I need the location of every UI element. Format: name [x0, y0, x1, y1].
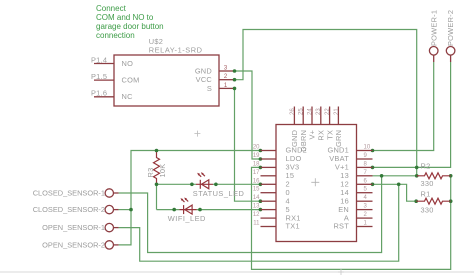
wire relay VCC to power rail via top — [235, 30, 417, 176]
junction IC pin 19 — [259, 157, 263, 161]
grid cross mark — [194, 131, 200, 137]
svg-text:POWER-1: POWER-1 — [429, 10, 438, 46]
svg-text:GND: GND — [290, 130, 299, 147]
svg-text:12: 12 — [253, 212, 260, 218]
svg-text:NC: NC — [122, 92, 134, 101]
svg-text:25: 25 — [299, 108, 305, 115]
svg-text:GND: GND — [195, 66, 212, 75]
IC right pin names — [327, 146, 349, 231]
wire WIFI row left segment — [157, 209, 180, 211]
svg-text:11: 11 — [253, 221, 260, 227]
junction at relay pin 1 — [233, 87, 237, 91]
wire IC pin 7 row — [373, 175, 417, 177]
sheet boundary line — [0, 271, 474, 273]
IC left pin numbers — [253, 145, 260, 227]
svg-text:COM and NO to: COM and NO to — [96, 13, 154, 22]
svg-text:20: 20 — [253, 145, 260, 151]
svg-text:Connect: Connect — [96, 4, 127, 13]
relay U$2 pin 2 stub — [219, 79, 235, 81]
junction IC pin 10 — [371, 149, 375, 153]
IC top pin stubs — [294, 107, 338, 125]
IC right pin stubs — [357, 151, 373, 227]
junction STATUS_LED left — [190, 183, 194, 187]
wire IC pin 6 row to R1 left — [373, 184, 417, 201]
svg-text:14: 14 — [253, 195, 260, 201]
wire CLOSED_SENSOR-1 to IC pin 7 via bottom — [119, 176, 382, 253]
IC origin cross — [311, 178, 319, 186]
wire R3 bottom down to WIFI row — [156, 184, 158, 209]
wire 3V3 down to bottom rail and up right side — [252, 167, 451, 269]
wire GND1 to POWER-1 — [373, 62, 434, 151]
svg-text:330: 330 — [421, 179, 434, 188]
svg-text:10: 10 — [364, 145, 371, 151]
svg-text:TX1: TX1 — [286, 222, 300, 231]
junction at relay pin 2 — [233, 78, 237, 82]
junction R2 left — [415, 174, 419, 178]
svg-text:connection: connection — [96, 31, 135, 40]
wire V+1 to POWER-2 — [373, 62, 451, 167]
relay U$2 pin NC stub — [94, 96, 114, 98]
pad CLOSED_SENSOR-1 — [105, 189, 113, 197]
svg-text:P1.4: P1.4 — [91, 55, 107, 64]
svg-text:RELAY-1-SRD: RELAY-1-SRD — [149, 45, 203, 54]
svg-text:18: 18 — [253, 161, 260, 167]
svg-text:garage door button: garage door button — [96, 22, 164, 31]
junction IC pin 8 — [371, 166, 375, 170]
svg-text:V+: V+ — [308, 130, 317, 140]
LED STATUS_LED — [196, 172, 213, 189]
svg-text:23: 23 — [316, 108, 322, 115]
IC U1 body — [276, 125, 357, 242]
svg-text:GRN: GRN — [334, 130, 343, 147]
junction WIFI_LED left — [172, 208, 176, 212]
wire relay S to IC pin 14 — [235, 88, 261, 201]
relay U$2 body — [114, 55, 219, 106]
relay U$2 pin 3 stub — [219, 70, 235, 72]
junction IC pin 18 — [259, 166, 263, 170]
svg-text:P1.5: P1.5 — [91, 72, 107, 81]
wire relay GND to IC LDO — [235, 71, 261, 159]
svg-text:OPEN_SENSOR-1: OPEN_SENSOR-1 — [42, 223, 105, 232]
IC left pin stubs — [261, 151, 277, 227]
junction pin6 branch — [397, 183, 401, 187]
junction STATUS_LED right — [214, 183, 218, 187]
wire GND2 row to sensor common — [119, 151, 261, 245]
svg-text:VCC: VCC — [196, 75, 213, 84]
IC top pin names — [290, 130, 343, 152]
junction R3 bottom — [155, 183, 159, 187]
wire STATUS row left segment — [157, 183, 197, 185]
pad POWER-2 — [446, 47, 455, 56]
resistor R1 — [416, 198, 451, 204]
svg-text:NO: NO — [122, 59, 134, 68]
wire WIFI row right segment — [197, 209, 261, 211]
relay U$2 pin NO stub — [94, 63, 114, 65]
svg-text:COM: COM — [122, 76, 140, 85]
svg-text:R2: R2 — [421, 162, 431, 171]
junction R2 right — [449, 174, 453, 178]
junction R3 top — [155, 149, 159, 153]
svg-text:330: 330 — [421, 206, 434, 215]
svg-text:RST: RST — [333, 222, 349, 231]
LED WIFI_LED — [180, 198, 197, 215]
junction IC pin 20 — [259, 149, 263, 153]
junction pin7 branch — [380, 174, 384, 178]
svg-text:R3: R3 — [146, 168, 155, 178]
IC top pin numbers — [290, 108, 340, 115]
junction J1 power cross — [415, 166, 419, 170]
junction IC pin 14 — [259, 199, 263, 203]
junction R1 left — [414, 199, 418, 203]
svg-text:16: 16 — [253, 178, 260, 184]
svg-text:R1: R1 — [421, 190, 431, 199]
IC right pin numbers — [364, 145, 371, 227]
svg-text:21: 21 — [334, 108, 340, 115]
junction WIFI_LED right — [198, 208, 202, 212]
wire OPEN_SENSOR-1 to IC pin 6 via bottom — [119, 184, 399, 261]
junction R1 right — [449, 199, 453, 203]
svg-text:10K: 10K — [158, 164, 167, 178]
wire pad CLOSED_SENSOR-2 to common — [119, 209, 131, 211]
junction IC pin 6 — [371, 183, 375, 187]
svg-text:TX: TX — [325, 130, 334, 140]
pad CLOSED_SENSOR-2 — [105, 205, 113, 213]
svg-text:S: S — [207, 84, 212, 93]
svg-text:24: 24 — [307, 108, 313, 115]
svg-text:CLOSED_SENSOR-1: CLOSED_SENSOR-1 — [33, 189, 105, 198]
junction IC pin 16 — [259, 183, 263, 187]
junction at relay pin 3 — [233, 69, 237, 73]
IC left pin names — [286, 146, 308, 231]
svg-text:19: 19 — [253, 153, 260, 159]
svg-text:POWER-2: POWER-2 — [446, 10, 455, 46]
svg-text:WIFI_LED: WIFI_LED — [168, 214, 206, 223]
svg-text:13: 13 — [253, 204, 260, 210]
svg-text:RX: RX — [317, 130, 326, 141]
relay U$2 pin 1 stub — [219, 87, 235, 89]
resistor R2 — [417, 173, 451, 179]
svg-text:STATUS_LED: STATUS_LED — [193, 189, 245, 198]
svg-text:17: 17 — [253, 170, 260, 176]
relay U$2 pin COM stub — [94, 79, 114, 81]
svg-text:22: 22 — [325, 108, 331, 115]
resistor R3 — [154, 151, 160, 185]
svg-text:OPEN_SENSOR-2: OPEN_SENSOR-2 — [42, 240, 105, 249]
junction common at CLOSED_SENSOR-2 — [129, 208, 133, 212]
pad POWER-1 — [429, 47, 438, 56]
svg-text:P1.6: P1.6 — [91, 89, 107, 98]
svg-text:CLOSED_SENSOR-2: CLOSED_SENSOR-2 — [33, 205, 105, 214]
svg-text:DBRN: DBRN — [299, 130, 308, 152]
svg-text:26: 26 — [290, 108, 296, 115]
pad OPEN_SENSOR-1 — [105, 223, 113, 231]
pad OPEN_SENSOR-2 — [105, 241, 113, 249]
junction IC pin 13 — [259, 208, 263, 212]
sheet cross mark — [338, 269, 344, 275]
svg-text:15: 15 — [253, 187, 260, 193]
wire STATUS row right segment — [213, 183, 260, 185]
